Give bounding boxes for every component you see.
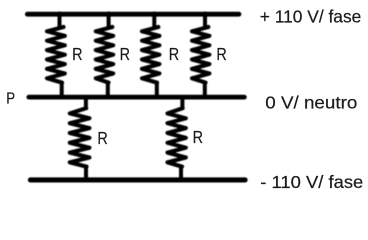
svg-text:R: R	[169, 44, 179, 64]
svg-text:R: R	[97, 128, 107, 148]
resistor R (bottom 1, between neutral and -110V bus)	[70, 98, 90, 180]
svg-text:- 110 V/ fase: - 110 V/ fase	[260, 172, 363, 192]
svg-text:0 V/ neutro: 0 V/ neutro	[265, 93, 357, 113]
svg-text:R: R	[72, 44, 82, 64]
resistor R (top 1, between +110V bus and neutral)	[47, 14, 65, 98]
wire: middle bus (0 V neutro)	[29, 95, 245, 100]
resistor R (top 4, between +110V bus and neutral)	[192, 14, 209, 98]
svg-text:+ 110 V/ fase: + 110 V/ fase	[260, 7, 362, 27]
wire: bottom bus (-110 V)	[30, 177, 245, 182]
svg-text:R: R	[216, 44, 226, 64]
svg-text:R: R	[120, 44, 130, 64]
svg-text:R: R	[193, 127, 203, 147]
resistor R (top 2, between +110V bus and neutral)	[96, 14, 113, 98]
resistor R (bottom 2, between neutral and -110V bus)	[168, 98, 186, 180]
resistor R (top 3, between +110V bus and neutral)	[142, 14, 159, 98]
wire: top bus (+110 V)	[27, 12, 239, 17]
svg-text:P: P	[6, 91, 15, 108]
